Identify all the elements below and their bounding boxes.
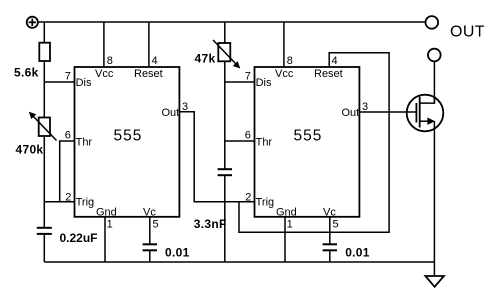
svg-text:8: 8 — [287, 55, 293, 67]
svg-text:8: 8 — [107, 55, 113, 67]
svg-text:0.22uF: 0.22uF — [60, 231, 98, 245]
svg-text:6: 6 — [65, 130, 71, 142]
svg-text:0.01: 0.01 — [345, 245, 370, 259]
svg-text:1: 1 — [107, 219, 113, 231]
potentiometer 470k — [29, 112, 57, 141]
svg-text:555: 555 — [114, 128, 143, 145]
svg-text:4: 4 — [332, 55, 338, 67]
svg-text:Dis: Dis — [256, 77, 272, 89]
svg-text:1: 1 — [287, 219, 293, 231]
svg-text:5: 5 — [153, 219, 159, 231]
wire C1 bottom to ground rail — [43, 234, 45, 262]
wire Vc pin5 U2 to C4 — [329, 217, 331, 245]
svg-text:Out: Out — [162, 107, 180, 119]
svg-text:Vcc: Vcc — [95, 68, 114, 80]
capacitor 3.3nF — [218, 169, 232, 175]
svg-text:555: 555 — [294, 128, 323, 145]
capacitor 0.01 (U2) — [323, 244, 337, 250]
ground — [425, 276, 444, 287]
svg-text:3.3nF: 3.3nF — [194, 217, 227, 231]
svg-text:47k: 47k — [195, 52, 216, 66]
svg-text:3: 3 — [362, 101, 368, 113]
wire Thr pin6 U1 to Trig node — [60, 141, 75, 202]
wire C3 bottom to ground rail — [224, 175, 226, 262]
wire drain Q1 to OUT terminal 2 — [433, 61, 435, 103]
wire Vcc pin8 U2 from rail — [283, 22, 285, 67]
wire C2 bottom to ground rail — [149, 250, 151, 262]
terminal OUT bottom — [428, 49, 441, 62]
svg-text:7: 7 — [65, 70, 71, 82]
terminal OUT top — [426, 16, 439, 29]
svg-text:4: 4 — [152, 55, 158, 67]
svg-text:Reset: Reset — [314, 68, 343, 80]
svg-text:5: 5 — [333, 219, 339, 231]
capacitor 0.22uF — [37, 228, 52, 234]
wire pot bottom to C1 top (through Trig junction) — [43, 136, 45, 228]
svg-text:Trig: Trig — [76, 197, 95, 209]
wire Trig node to Reset pin4 U2 — [239, 53, 389, 232]
svg-text:6: 6 — [245, 130, 251, 142]
wire Reset pin4 U1 from rail — [148, 22, 150, 67]
svg-text:470k: 470k — [16, 143, 44, 157]
wire C4 bottom to ground rail — [329, 250, 331, 262]
svg-text:0.01: 0.01 — [165, 245, 190, 259]
svg-text:Thr: Thr — [256, 137, 273, 149]
wire V+ drop to pot 47k — [224, 22, 226, 43]
transistor Q1 MOSFET — [407, 95, 444, 132]
svg-text:2: 2 — [245, 192, 251, 204]
wire Trig pin2 U1 — [44, 201, 74, 203]
wire Gnd pin1 U2 to ground rail — [284, 217, 286, 262]
wire Gnd pin1 U1 to ground rail — [104, 217, 106, 262]
svg-text:Gnd: Gnd — [276, 206, 297, 218]
capacitor 0.01 (U1) — [143, 244, 157, 250]
wire pot 47k bottom to C3 top (through Dis/Thr junctions) — [224, 62, 226, 170]
wire Vc pin5 U1 to C2 — [149, 217, 151, 245]
wire Out pin3 U1 to Trig pin2 U2 — [179, 112, 254, 202]
svg-text:7: 7 — [245, 70, 251, 82]
resistor 5.6k — [39, 43, 50, 61]
svg-text:Vc: Vc — [323, 206, 336, 218]
wire Dis pin7 U1 — [44, 81, 74, 83]
svg-text:Out: Out — [342, 107, 360, 119]
potentiometer 47k — [213, 40, 240, 69]
op-amp U2 555 body — [255, 67, 360, 217]
op-amp U1 555 body — [75, 67, 180, 217]
wire top supply rail — [38, 21, 426, 23]
svg-text:2: 2 — [65, 192, 71, 204]
svg-text:Vc: Vc — [143, 206, 156, 218]
wire Out pin3 U2 to gate Q1 — [359, 111, 416, 113]
svg-text:OUT: OUT — [450, 23, 485, 40]
svg-text:Thr: Thr — [76, 137, 93, 149]
svg-text:Trig: Trig — [256, 197, 275, 209]
wire V+ drop to R1 — [43, 22, 45, 43]
wire Dis pin7 U2 — [225, 81, 255, 83]
svg-text:Vcc: Vcc — [275, 68, 294, 80]
wire ground rail — [44, 261, 434, 263]
svg-text:5.6k: 5.6k — [14, 66, 39, 80]
svg-text:Dis: Dis — [76, 77, 92, 89]
wire R1 bottom to pot top (Dis node) — [43, 61, 45, 118]
svg-text:Gnd: Gnd — [96, 206, 117, 218]
svg-text:Reset: Reset — [134, 68, 163, 80]
wire Thr pin6 U2 — [225, 140, 255, 142]
wire source Q1 to ground — [433, 121, 435, 276]
power terminal V+ — [27, 17, 38, 28]
wire Vcc pin8 U1 from rail — [103, 22, 105, 67]
